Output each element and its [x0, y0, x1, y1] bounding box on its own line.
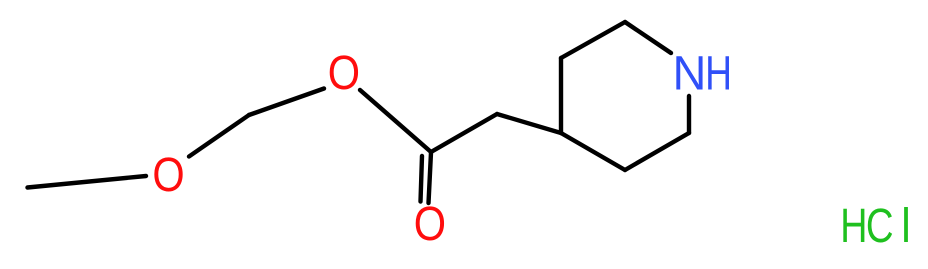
- svg-text:l: l: [901, 200, 911, 253]
- svg-text:O: O: [152, 149, 184, 202]
- wire: bond CH3 to O1 (methyl-oxygen): [28, 176, 147, 188]
- wire: ring bond C3-C2: [561, 22, 625, 58]
- wire: bond CH2b to ring C4: [497, 114, 561, 133]
- svg-text:O: O: [414, 198, 446, 251]
- wire: double bond C=O3 line 1: [421, 156, 423, 202]
- svg-text:H: H: [840, 200, 867, 253]
- wire: ring bond C2-N: [625, 22, 671, 53]
- wire: ring bond C6-C5: [625, 133, 689, 170]
- svg-text:C: C: [866, 200, 894, 253]
- wire: bond O1 to CH2a: [189, 115, 249, 157]
- wire: bond carbonyl C to CH2b: [431, 114, 497, 152]
- wire: bond O2 to carbonyl C: [360, 90, 431, 152]
- wire: ring bond N-C6: [687, 96, 691, 133]
- svg-text:N: N: [673, 48, 707, 101]
- wire: double bond C=O3 line 2: [429, 153, 432, 204]
- svg-text:H: H: [705, 48, 732, 101]
- svg-text:O: O: [328, 47, 360, 100]
- wire: ring bond C4-C3: [559, 58, 563, 133]
- wire: bond CH2a to O2: [249, 89, 324, 116]
- wire: ring bond C5-C4: [561, 133, 625, 170]
